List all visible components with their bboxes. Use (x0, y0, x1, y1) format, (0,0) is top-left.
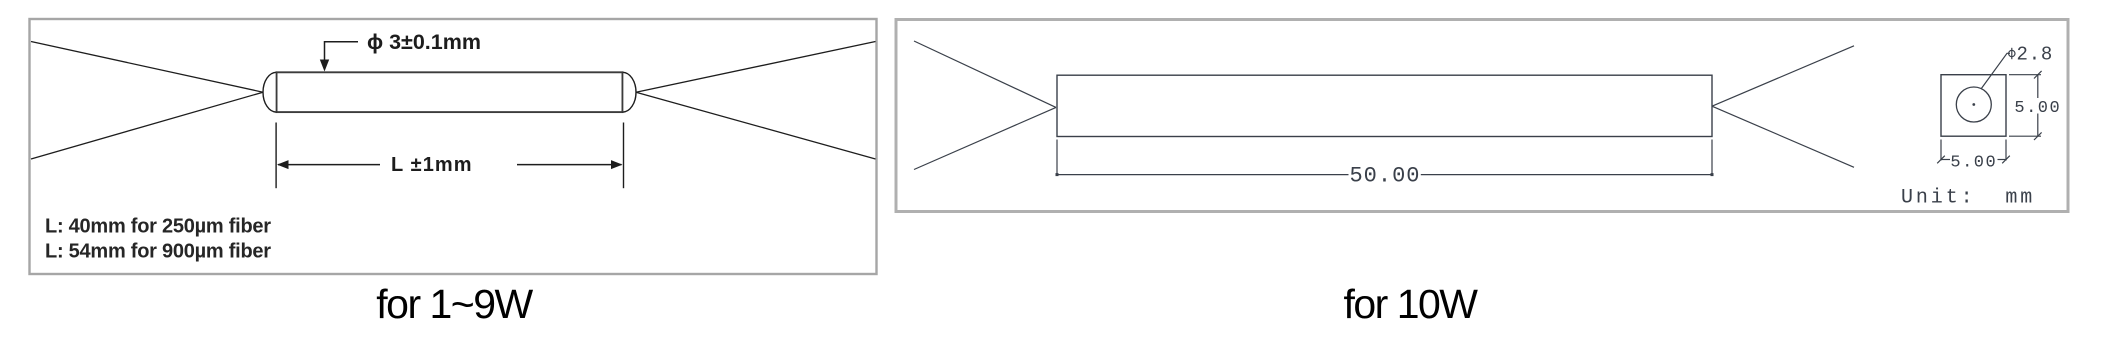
svg-text:50.00: 50.00 (1349, 164, 1420, 189)
svg-text:for 1~9W: for 1~9W (376, 281, 533, 327)
50.00 dimension end dot right (1711, 173, 1714, 176)
5.00 bottom dim left extension line (1940, 140, 1942, 161)
svg-text:5.00: 5.00 (2014, 99, 2061, 118)
capsule right end cap (623, 72, 636, 112)
bore circle center dot (1972, 103, 1975, 106)
output fiber lower (left panel) (636, 92, 876, 159)
50.00 dimension left extension line (1056, 140, 1058, 176)
50.00 dimension right extension line (1711, 140, 1713, 176)
5.00 bottom dim right extension line (2005, 140, 2007, 161)
5.00 right dim tick top (2034, 71, 2042, 79)
50.00 dimension end dot left (1056, 173, 1059, 176)
L dimension line left segment (278, 164, 380, 166)
bore circle (1956, 87, 1991, 122)
5.00 right dim bottom extension line (2009, 135, 2041, 137)
right extension line of L dimension (623, 123, 625, 189)
diameter leader line (325, 42, 359, 62)
right panel frame (896, 20, 2068, 212)
left panel frame (30, 19, 877, 274)
5.00 right dim line lower segment (2037, 114, 2039, 137)
50.00 dimension line left segment (1057, 174, 1349, 176)
capsule left chord (276, 72, 278, 112)
L dimension right arrowhead (611, 160, 623, 169)
output fiber lower (right panel) (1712, 106, 1854, 167)
diameter leader arrowhead (320, 60, 329, 72)
L dimension left arrowhead (277, 160, 289, 169)
5.00 bottom dim line left segment (1941, 159, 1950, 161)
phi symbol of bore label (2009, 48, 2015, 59)
5.00 bottom dim tick right (2002, 156, 2010, 164)
50.00 dimension line right segment (1421, 174, 1712, 176)
svg-text:Unit: mm: Unit: mm (1901, 187, 2035, 210)
svg-text:for 10W: for 10W (1343, 281, 1478, 327)
L dimension line right segment (517, 164, 622, 166)
svg-text:ϕ 3±0.1mm: ϕ 3±0.1mm (367, 30, 481, 54)
input fiber upper (left panel) (31, 42, 263, 93)
svg-text:L: 54mm for 900µm fiber: L: 54mm for 900µm fiber (45, 241, 271, 263)
svg-text:2.8: 2.8 (2017, 44, 2054, 66)
svg-text:L ±1mm: L ±1mm (391, 154, 473, 176)
output fiber upper (left panel) (636, 42, 876, 93)
left extension line of L dimension (275, 123, 277, 189)
5.00 bottom dim tick left (1937, 156, 1945, 164)
svg-text:L: 40mm for 250µm fiber: L: 40mm for 250µm fiber (45, 216, 271, 238)
package body rectangle (right panel) (1057, 75, 1712, 136)
output fiber upper (right panel) (1712, 46, 1854, 106)
5.00 right dim line upper segment (2037, 75, 2039, 98)
capsule right chord (622, 72, 624, 112)
phi 2.8 leader line (1981, 53, 2010, 89)
5.00 right dim tick bottom (2034, 132, 2042, 140)
5.00 bottom dim line right segment (1998, 159, 2007, 161)
input fiber lower (right panel) (914, 107, 1056, 169)
input fiber lower (left panel) (31, 92, 263, 159)
5.00 right dim top extension line (2009, 74, 2041, 76)
svg-text:5.00: 5.00 (1950, 154, 1997, 173)
cross-section square outline (1941, 75, 2006, 137)
input fiber upper (right panel) (914, 41, 1056, 107)
capsule left end cap (263, 72, 276, 112)
capsule body (cylindrical package, left panel) (277, 72, 623, 112)
